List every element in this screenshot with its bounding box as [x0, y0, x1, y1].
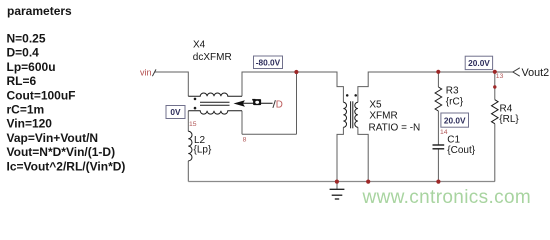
- svg-text:rC=1m: rC=1m: [7, 103, 45, 117]
- svg-text:dcXFMR: dcXFMR: [193, 52, 232, 63]
- svg-text:C1: C1: [447, 134, 460, 145]
- svg-text:Vout2: Vout2: [522, 67, 550, 79]
- svg-text:14: 14: [440, 129, 448, 136]
- svg-text:Ic=Vout^2/RL/(Vin*D): Ic=Vout^2/RL/(Vin*D): [7, 159, 126, 173]
- svg-text:Lp=600u: Lp=600u: [7, 60, 56, 74]
- svg-text:8: 8: [243, 137, 247, 144]
- svg-text:R3: R3: [446, 85, 459, 96]
- svg-text:XFMR: XFMR: [369, 111, 397, 122]
- svg-text:0V: 0V: [170, 107, 181, 117]
- svg-text:D: D: [276, 99, 283, 110]
- svg-text:parameters: parameters: [7, 4, 72, 18]
- svg-text:Cout=100uF: Cout=100uF: [7, 88, 76, 102]
- svg-text:X5: X5: [369, 99, 382, 110]
- svg-text:{Lp}: {Lp}: [194, 145, 212, 156]
- svg-text:X4: X4: [193, 40, 206, 51]
- svg-text:-80.0V: -80.0V: [256, 57, 281, 67]
- svg-text:vin: vin: [140, 68, 152, 78]
- svg-text:Vout=N*D*Vin/(1-D): Vout=N*D*Vin/(1-D): [7, 145, 116, 159]
- svg-text:RATIO = -N: RATIO = -N: [369, 123, 421, 134]
- svg-text:D=0.4: D=0.4: [7, 46, 40, 60]
- svg-text:www.cntronics.com: www.cntronics.com: [362, 187, 532, 208]
- svg-text:N=0.25: N=0.25: [7, 32, 46, 46]
- svg-text:RL=6: RL=6: [7, 74, 37, 88]
- svg-text:R4: R4: [500, 104, 513, 115]
- svg-text:{RL}: {RL}: [499, 114, 519, 125]
- svg-text:20.0V: 20.0V: [444, 116, 466, 126]
- svg-text:Vin=120: Vin=120: [7, 117, 53, 131]
- svg-text:20.0V: 20.0V: [468, 58, 490, 68]
- svg-text:15: 15: [189, 121, 197, 128]
- svg-text:{Cout}: {Cout}: [447, 145, 475, 156]
- svg-text:{rC}: {rC}: [446, 97, 464, 108]
- svg-text:Vap=Vin+Vout/N: Vap=Vin+Vout/N: [7, 131, 99, 145]
- svg-text:13: 13: [496, 73, 504, 80]
